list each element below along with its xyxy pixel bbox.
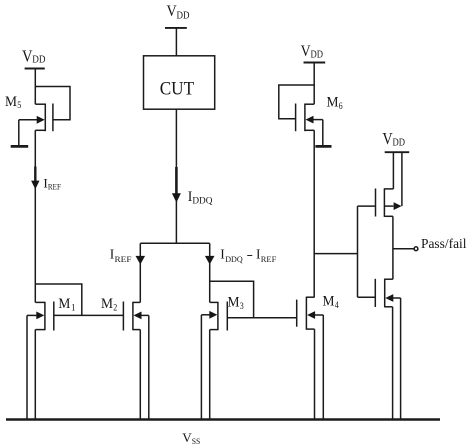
wire M4 source to VSS [314,329,316,419]
wire M6 bulk to ground [322,120,324,145]
svg-text:3: 3 [240,301,244,311]
wire M5 bulk to ground [18,120,20,145]
power VDD (top right, above M6) [304,62,326,64]
svg-text:DDQ: DDQ [192,195,213,205]
wire VDD to M6 source [313,63,315,105]
wire M1 gate to M2 gate [54,314,124,316]
wire M2 bulk to VSS [148,315,150,419]
CUT block U1 [144,56,215,109]
wire VDD to M5 source [34,69,36,105]
wire M6 drain down to M4 drain [313,130,315,297]
wire left branch to M2 drain [139,243,141,302]
transistor Q2 (inverter NMOS) [385,278,393,280]
svg-text:CUT: CUT [160,78,195,99]
wire input to Q2 gate [358,296,376,298]
node output terminal circle [414,247,418,251]
wire Q2 bulk to VSS [400,298,402,420]
svg-text:M: M [58,296,70,312]
wire Q1 drain to Q2 drain (output node) [392,216,394,279]
svg-text:V: V [301,43,311,60]
wire M3 bulk to VSS [200,315,202,420]
svg-text:M: M [101,296,113,312]
svg-text:SS: SS [192,437,201,446]
svg-text:REF: REF [261,254,277,264]
power VDD (top center, above CUT) [165,27,187,29]
transistor M4 [306,296,314,298]
wire M4 bulk to VSS [322,315,324,420]
wire M3 gate to M4 gate [227,317,296,319]
wire M3 source to VSS [209,330,211,420]
ground (M6 bulk) [315,145,331,148]
current arrow IREF [34,167,36,182]
svg-text:DD: DD [177,11,190,22]
svg-text:2: 2 [113,303,117,313]
wire M5 drain down to M1 drain [34,130,36,302]
wire input to Q1 gate [358,205,376,207]
svg-text:-: - [247,247,254,262]
ground (M5 bulk) [11,145,29,148]
wire VDD to Q1 source [392,152,394,189]
node summing bar [140,242,209,244]
svg-text:V: V [167,3,178,20]
wire VDD bar to CUT [175,28,177,56]
transistor Q1 (inverter PMOS) [384,188,393,190]
svg-text:DD: DD [311,49,324,60]
svg-text:5: 5 [17,100,21,110]
wire output stub [393,248,414,250]
wire VDD to Q1 bulk [401,152,403,206]
svg-text:REF: REF [115,254,132,264]
svg-text:M: M [327,95,339,111]
wire CUT bottom to summing node [175,109,177,243]
svg-text:M: M [5,94,17,110]
current arrow IREF branch [136,256,146,265]
current arrow IDDQ-IREF branch [205,256,215,265]
transistor M3 [210,301,218,303]
wire M1 source to VSS [34,330,36,420]
svg-text:DD: DD [393,137,406,148]
svg-text:REF: REF [48,182,61,192]
current arrow IDDQ [175,167,178,194]
wire inverter input bar [357,206,359,297]
svg-text:6: 6 [339,101,343,111]
power VSS rail [6,418,440,421]
svg-text:DDQ: DDQ [225,254,243,264]
wire M1 bulk to VSS [26,315,28,419]
svg-text:M: M [323,294,335,310]
transistor M6 [305,103,314,105]
wire M3 gate-drain loop [210,281,254,318]
wire M2 source to VSS [139,330,141,420]
transistor M2 [133,301,140,303]
wire M5 gate-drain loop [35,87,70,120]
svg-text:1: 1 [71,303,76,313]
svg-text:4: 4 [335,300,339,310]
wire node to inverter input [314,253,357,255]
wire M6 gate-drain loop [279,85,314,119]
wire M1 gate-drain loop [35,284,82,315]
power VDD (right, above inverter) [385,151,410,153]
wire right branch to M3 drain [209,243,211,302]
svg-text:M: M [228,295,240,311]
transistor M1 [35,301,45,303]
transistor M5 [35,103,45,105]
wire Q2 source to VSS [392,307,394,420]
power VDD (top left, above M5) [25,68,45,70]
svg-text:DD: DD [32,55,46,66]
svg-text:Pass/fail: Pass/fail [421,236,467,251]
